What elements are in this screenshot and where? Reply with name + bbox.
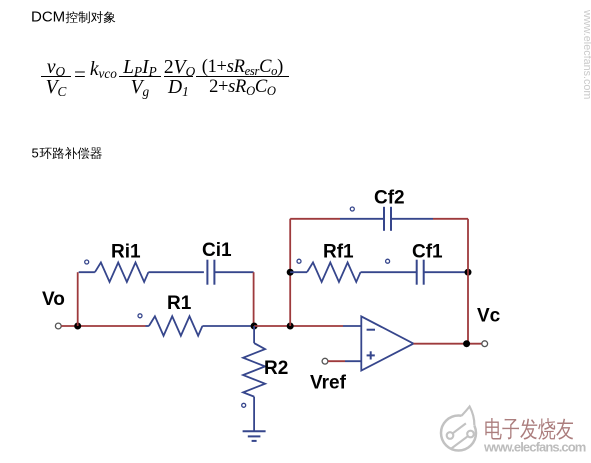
wire Vo to R1: [61, 325, 145, 327]
capacitor Cf2: [290, 218, 340, 220]
resistor Ri1: [79, 271, 95, 273]
capacitor Ci1: [206, 260, 208, 285]
wire Vref to opamp plus: [328, 360, 345, 362]
svg-text:Vref: Vref: [310, 373, 347, 394]
svg-text:Vc: Vc: [477, 306, 501, 327]
node junction feedback column: [287, 323, 294, 330]
node junction A (Vo column): [74, 323, 81, 330]
node Vo terminal: [55, 323, 61, 329]
wire Ci1 down to main line: [253, 272, 255, 326]
svg-text:Rf1: Rf1: [323, 242, 354, 263]
formula: [41, 57, 289, 97]
op-amp U1: [361, 316, 413, 370]
svg-text:Cf2: Cf2: [374, 188, 405, 209]
svg-text:www.elecfans.com: www.elecfans.com: [483, 440, 586, 455]
svg-text:R1: R1: [167, 293, 192, 314]
watermark logo circle: [441, 407, 476, 451]
heading 5 loop compensator: [30, 141, 150, 163]
svg-text:www.elecfans.com: www.elecfans.com: [581, 9, 591, 99]
resistor R2: [253, 326, 255, 343]
resistor Rf1: [287, 269, 294, 276]
node Vref terminal: [322, 358, 328, 364]
wire left vertical Vo column: [77, 272, 79, 326]
wire feedback left vertical: [289, 219, 291, 326]
resistor R1: [146, 325, 149, 327]
node junction Rf1 right: [465, 269, 472, 276]
capacitor Cf1: [416, 260, 418, 285]
wire opamp output: [414, 343, 483, 345]
svg-text:Ci1: Ci1: [202, 240, 232, 261]
wire main line to opamp: [254, 325, 343, 327]
heading DCM control object: [30, 0, 160, 26]
node junction Vc: [463, 340, 470, 347]
node junction R2 top: [251, 323, 258, 330]
node Vc terminal: [482, 341, 488, 347]
svg-text:R2: R2: [264, 358, 288, 379]
wire feedback right vertical: [467, 219, 469, 344]
svg-text:Cf1: Cf1: [412, 242, 443, 263]
svg-text:Vo: Vo: [42, 289, 65, 310]
svg-text:Ri1: Ri1: [111, 242, 141, 263]
ground: [243, 430, 266, 432]
watermark text CJK: [485, 418, 501, 439]
